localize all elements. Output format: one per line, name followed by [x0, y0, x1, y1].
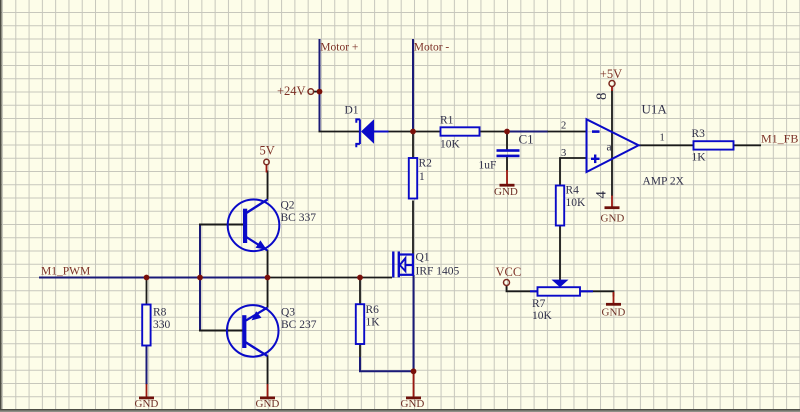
wire PWM row to Q1 gate — [268, 277, 393, 279]
svg-text:a: a — [607, 142, 612, 154]
svg-text:BC 337: BC 337 — [281, 212, 317, 224]
junction M1_PWM/Q2-Q3 emitters — [265, 275, 271, 281]
svg-text:GND: GND — [602, 307, 626, 319]
capacitor C1 — [479, 132, 534, 172]
power port 5V — [260, 143, 275, 164]
wire 5V port stem — [266, 165, 268, 173]
svg-text:GND: GND — [494, 186, 518, 198]
wire Q2 emitter vertical — [267, 250, 269, 278]
svg-text:GND: GND — [135, 398, 159, 410]
svg-text:1: 1 — [660, 132, 665, 143]
junction node R1/C1/op-amp pin2 — [504, 129, 510, 135]
ground below Q3 — [256, 384, 280, 410]
junction M1_PWM/base bus — [197, 275, 203, 281]
svg-text:R7: R7 — [532, 298, 546, 310]
transistor Q1 (MOSFET IRF1405) — [393, 251, 459, 277]
resistor R1 — [440, 115, 480, 151]
resistor R6 — [356, 304, 380, 344]
power port +24V — [277, 84, 314, 98]
wire M1_PWM horizontal — [39, 277, 268, 279]
wire R6 bottom to source — [360, 357, 414, 371]
wire node to R8 top — [146, 278, 148, 305]
svg-text:GND: GND — [401, 398, 425, 410]
wire VCC to pot left — [507, 286, 538, 292]
ground right of R7 — [602, 292, 626, 319]
junction node D1/R1/R2/Motor- — [410, 129, 416, 135]
resistor R4 — [556, 185, 586, 226]
svg-text:Q3: Q3 — [281, 307, 295, 319]
svg-text:3: 3 — [561, 148, 566, 159]
svg-text:4: 4 — [594, 191, 610, 199]
svg-text:GND: GND — [256, 398, 280, 410]
svg-text:R2: R2 — [419, 158, 433, 170]
svg-text:+24V: +24V — [277, 84, 306, 98]
wire +5V to opamp power — [611, 90, 613, 196]
svg-text:1K: 1K — [366, 317, 381, 329]
junction M1_PWM/R6 — [357, 275, 363, 281]
svg-text:+5V: +5V — [600, 67, 622, 81]
svg-text:BC 237: BC 237 — [281, 319, 317, 331]
svg-text:R4: R4 — [566, 185, 580, 197]
wire zener anode to node — [388, 131, 413, 133]
wire R1 to C1 node — [480, 131, 508, 133]
resistor R8 — [142, 305, 170, 346]
wire R6 bottom pin — [359, 344, 361, 357]
wire Q3 collector vertical — [267, 356, 269, 385]
wire Q3 emitter vertical — [267, 278, 269, 308]
junction Q1 source/R6/GND — [411, 368, 417, 374]
svg-text:10K: 10K — [440, 139, 461, 151]
wire node to R6 top — [359, 278, 361, 306]
wire base bus vertical — [199, 225, 201, 331]
ground below Q1 source — [401, 371, 425, 410]
potentiometer R7 — [530, 280, 593, 322]
wire R3 to M1_FB — [734, 144, 762, 146]
svg-text:R8: R8 — [153, 307, 167, 319]
svg-text:8: 8 — [594, 93, 610, 101]
svg-text:U1A: U1A — [642, 102, 668, 117]
svg-text:1uF: 1uF — [479, 160, 497, 172]
wire node to R2 top — [412, 132, 414, 159]
op-amp U1A — [561, 93, 685, 199]
svg-text:10K: 10K — [532, 310, 553, 322]
wire pot right to GND — [580, 291, 614, 296]
wire node to R1 — [413, 131, 441, 133]
wire R4 bottom to pot wiper — [559, 226, 561, 281]
svg-text:1: 1 — [419, 171, 425, 183]
sheet left border — [0, 0, 2, 410]
sheet bottom border — [0, 409, 800, 411]
wire Motor+ vertical — [319, 39, 321, 132]
svg-text:IRF 1405: IRF 1405 — [416, 266, 460, 278]
svg-text:D1: D1 — [345, 104, 359, 116]
svg-text:Q2: Q2 — [281, 199, 295, 211]
wire Motor- vertical — [412, 39, 414, 132]
svg-text:AMP 2X: AMP 2X — [643, 176, 685, 188]
wire +24V port link — [314, 91, 319, 93]
wire R2 bottom to Q1 drain — [412, 201, 414, 255]
wire Q1 source vertical — [413, 275, 415, 371]
wire C1 top pin — [506, 132, 508, 151]
power port VCC — [496, 265, 522, 286]
wire C1 to opamp pin2 — [507, 131, 548, 133]
transistor Q3 (PNP BC237) — [227, 305, 317, 357]
svg-text:C1: C1 — [519, 132, 534, 147]
wire +24V row to zener — [319, 131, 360, 133]
wire opamp pin3 to R4 — [560, 158, 587, 186]
resistor R2 — [409, 158, 432, 199]
wire Q2 base horizontal — [199, 224, 245, 226]
svg-text:M1_PWM: M1_PWM — [41, 266, 90, 278]
ground below C1 — [494, 170, 518, 198]
svg-text:5V: 5V — [260, 143, 275, 157]
ground below op-amp — [601, 196, 625, 225]
wire opamp output to R3 — [639, 144, 694, 146]
wire C1 bottom pin — [506, 157, 508, 172]
junction M1_PWM/R8 — [144, 275, 150, 281]
wire opamp pin2 — [548, 131, 587, 133]
power port +5V — [600, 67, 622, 91]
wire Q2 collector vertical — [267, 171, 269, 200]
svg-text:R6: R6 — [366, 304, 380, 316]
svg-text:VCC: VCC — [496, 265, 522, 279]
svg-text:330: 330 — [153, 319, 171, 331]
wire Q3 base horizontal — [199, 330, 245, 332]
svg-text:M1_FB: M1_FB — [761, 132, 798, 146]
transistor Q2 (NPN BC337) — [228, 199, 317, 251]
svg-text:2: 2 — [561, 121, 566, 132]
diode D1 (zener) — [345, 104, 389, 147]
junction at +24V on Motor+ rail — [317, 89, 323, 95]
resistor R3 — [692, 128, 734, 164]
svg-text:R3: R3 — [692, 128, 706, 140]
svg-text:1K: 1K — [692, 151, 707, 163]
svg-text:10K: 10K — [566, 197, 587, 209]
wire below R8 — [146, 346, 148, 385]
svg-text:Q1: Q1 — [416, 251, 430, 263]
svg-text:Motor -: Motor - — [414, 42, 450, 54]
svg-text:GND: GND — [601, 213, 625, 225]
svg-text:R1: R1 — [440, 115, 454, 127]
svg-text:Motor +: Motor + — [320, 42, 358, 54]
ground below R8 — [135, 384, 159, 410]
